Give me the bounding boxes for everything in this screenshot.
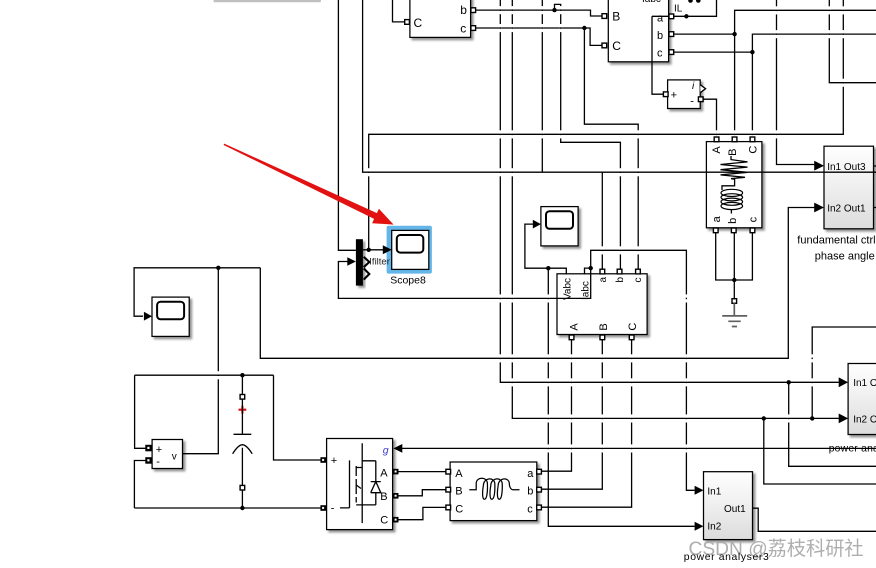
- svg-text:Iabc: Iabc: [581, 281, 592, 300]
- three-phase V-I measurement block: [557, 274, 647, 335]
- svg-text:a: a: [527, 468, 534, 480]
- svg-text:C: C: [612, 39, 621, 53]
- voltage measurement block v: [152, 440, 182, 469]
- wire: fundamental In1 feed from top: [777, 0, 815, 165]
- subsystem M (three-phase block B,C in / a,b,c out, cut off at top): [608, 0, 668, 62]
- port squares: converter: [320, 457, 326, 463]
- scope6 (middle): [541, 207, 578, 246]
- three-phase series RLC branch (top): [706, 142, 762, 228]
- port squares: V-I measurement block: [600, 269, 605, 274]
- svg-text:c: c: [527, 503, 533, 515]
- resistor zigzag icon: [721, 156, 748, 179]
- wire: Iabc output to power analyser3 In1: [591, 250, 695, 490]
- wire: current measurement out down to RLC A: [703, 99, 717, 137]
- wire: In2 branch down exiting right: [764, 418, 876, 484]
- svg-text:IL: IL: [674, 4, 683, 15]
- wire: capacitor bottom stub: [241, 486, 243, 508]
- svg-text:fundamental ctrl: fundamental ctrl: [797, 234, 875, 246]
- svg-text:c: c: [633, 278, 644, 283]
- svg-text:power analyser3: power analyser3: [684, 552, 770, 563]
- svg-text:b: b: [615, 277, 626, 283]
- arrow: scope1 input: [144, 312, 152, 321]
- three-phase filter RLC branch (bottom): [450, 462, 537, 521]
- wire: M block b output to vertical: [671, 33, 735, 35]
- wire: mux output into Scope8 with feedback branch: [363, 249, 385, 251]
- svg-text:A: A: [380, 468, 388, 480]
- port squares: M block: [602, 14, 607, 19]
- svg-text:C: C: [414, 16, 423, 30]
- wire: junction to scope1: [134, 268, 260, 316]
- svg-text:Vabc: Vabc: [562, 278, 573, 300]
- arrows: fundamental block inputs: [814, 161, 824, 171]
- arrows: power an inputs: [839, 377, 848, 387]
- junction dots: [552, 8, 556, 12]
- wire: converter A to filter A: [398, 471, 446, 473]
- wire: exit right y=82.7: [829, 0, 876, 83]
- current measurement block i: [668, 80, 706, 109]
- wire: b branch staple down to measurement port b: [555, 4, 621, 269]
- wire: fundamental Out1 stub: [874, 207, 876, 209]
- IGBT universal bridge converter: [327, 439, 393, 530]
- wire: V501 feed to power-an In1: [500, 0, 839, 382]
- ground symbol: [732, 299, 737, 304]
- port squares: TL block: [405, 20, 410, 25]
- power an block (right edge): [848, 364, 876, 435]
- wire: RLC bottom ports to ground: [716, 232, 753, 299]
- mux Ifilter: [356, 239, 369, 285]
- svg-text:In2 Out2: In2 Out2: [853, 415, 876, 426]
- inductor coil icon (vertical axis spring): [722, 179, 735, 190]
- svg-text:C: C: [455, 503, 463, 515]
- wire: Iabc feed left to mux input 2: [338, 262, 590, 299]
- wire: Vabc junction to scope6: [525, 224, 548, 268]
- arrows: power analyser3 inputs: [695, 486, 704, 495]
- svg-text:A: A: [711, 146, 723, 154]
- svg-text:-: -: [331, 502, 335, 514]
- svg-text:A: A: [568, 323, 580, 331]
- crossing gaps: [217, 6, 845, 452]
- svg-text:Iabc: Iabc: [642, 0, 661, 5]
- wire: V513 feed to power-an In2: [512, 0, 839, 418]
- svg-text:In2 Out1: In2 Out1: [827, 203, 866, 214]
- svg-text:B: B: [727, 148, 739, 155]
- arrow: scope6 input: [533, 220, 541, 229]
- port squares: i block: [663, 92, 668, 97]
- wire: plus rail into converter: [274, 375, 321, 460]
- wire: TL block C input from top: [393, 0, 406, 22]
- svg-text:A: A: [455, 468, 463, 480]
- wire: b phase TL to M block B: [475, 10, 602, 16]
- svg-text:phase angle: phase angle: [815, 251, 875, 263]
- port squares: filter RLC branch: [446, 469, 451, 474]
- wire: vertical V542 from top joining H171: [541, 0, 543, 172]
- wire: b vertical with top exit right: [735, 10, 876, 137]
- svg-text:In2: In2: [707, 521, 721, 532]
- wire: a signal down to current measurement plus: [652, 16, 669, 94]
- svg-text:C: C: [380, 514, 388, 526]
- output chevron of i block: [700, 85, 705, 93]
- fundamental ctrl subsystem (right edge): [824, 146, 874, 229]
- power analyser3 block: [704, 472, 753, 540]
- svg-text:+: +: [331, 455, 337, 467]
- wire: M block a output, up at right: [671, 0, 717, 16]
- svg-text:C: C: [748, 146, 760, 154]
- svg-text:C: C: [627, 323, 639, 331]
- svg-text:B: B: [455, 486, 462, 498]
- wire: converter C to filter C: [398, 507, 446, 519]
- svg-text:b: b: [527, 486, 533, 498]
- port squares: top RLC branch: [714, 137, 719, 142]
- port squares: capacitor: [240, 395, 245, 400]
- wire: long horizontal H171 across canvas: [363, 0, 876, 172]
- svg-text:B: B: [598, 323, 610, 330]
- svg-text:power ana: power ana: [829, 443, 876, 454]
- svg-text:c: c: [460, 22, 466, 36]
- svg-text:b: b: [460, 3, 467, 17]
- gray cut-off shadow bar at top edge: [214, 0, 322, 2]
- svg-text:+: +: [156, 444, 162, 456]
- svg-text:Scope8: Scope8: [390, 274, 426, 286]
- red annotation arrow: [224, 144, 394, 225]
- wire: H358 branch up to fundamental In2: [260, 208, 814, 359]
- wire: measurement C down to filter c: [542, 338, 632, 507]
- svg-text:c: c: [748, 216, 760, 222]
- wire: capacitor top stub: [241, 375, 243, 395]
- svg-text:+: +: [671, 89, 677, 101]
- port squares: voltmeter: [145, 445, 152, 452]
- wire: c vertical with exit right: [752, 34, 876, 137]
- wire: DC minus rail H508: [134, 461, 321, 509]
- arrow: Scope8 input: [383, 245, 392, 254]
- svg-text:a: a: [598, 277, 609, 283]
- wire: power analyser3 Out1 exit: [753, 508, 876, 531]
- svg-text:a: a: [657, 13, 664, 25]
- svg-text:In1 Out1: In1 Out1: [853, 378, 876, 389]
- wire: Vabc port entry: [548, 268, 566, 274]
- svg-text:B: B: [612, 10, 620, 24]
- wire: g-signal long horizontal into converter: [402, 447, 876, 449]
- arrow: converter g input: [393, 444, 402, 453]
- DC link capacitor (polarized): [233, 399, 253, 485]
- svg-text:a: a: [711, 215, 723, 222]
- svg-text:b: b: [727, 218, 739, 224]
- converter internal igbt+diode icon: [340, 443, 381, 523]
- wire: measurement A down to filter a: [542, 338, 572, 471]
- wire: In1 branch down exiting right: [789, 382, 876, 466]
- subsystem TL (top-left, cut off at top): [410, 0, 471, 37]
- svg-text:b: b: [657, 30, 663, 42]
- inductor coil icon: [469, 478, 519, 499]
- wire: Vabc junction down to power analyser3 In2: [548, 268, 694, 526]
- wire: c branch down to measurement port c: [584, 28, 638, 269]
- svg-text:Ifilter: Ifilter: [369, 257, 390, 268]
- svg-text:c: c: [657, 48, 663, 60]
- mux unconnected port chevrons: [364, 257, 370, 280]
- wire: vertical to mux input 1: [338, 0, 356, 250]
- wire: measurement B down to filter b: [542, 338, 603, 489]
- wire: branch from H172 down to measurement port a: [601, 172, 603, 269]
- wire: DC plus rail H375: [135, 375, 274, 448]
- wire: c phase TL to M block C: [475, 28, 602, 45]
- Scope8 with cyan selection highlight: [387, 226, 432, 274]
- svg-text:-: -: [690, 96, 694, 108]
- svg-text:Out1: Out1: [724, 504, 746, 515]
- scope1 (left): [152, 297, 189, 336]
- wire: corner from right edge joining In2 line: [812, 327, 876, 418]
- wire: voltmeter v output up to junction: [183, 268, 219, 454]
- wire: long feedback H134 up at right: [369, 0, 844, 250]
- svg-text:In1: In1: [707, 486, 721, 497]
- wire: Iabc port entry: [585, 268, 591, 274]
- svg-text:In1 Out3: In1 Out3: [827, 162, 866, 173]
- wire: fundamental Out3 stub: [874, 165, 876, 167]
- svg-text:g: g: [383, 445, 389, 457]
- wire: converter B to filter B: [398, 490, 446, 496]
- wire: M block c output to vertical: [671, 51, 752, 53]
- arrow: mux input2: [347, 257, 356, 266]
- svg-text:-: -: [156, 456, 160, 468]
- svg-text:v: v: [172, 452, 177, 463]
